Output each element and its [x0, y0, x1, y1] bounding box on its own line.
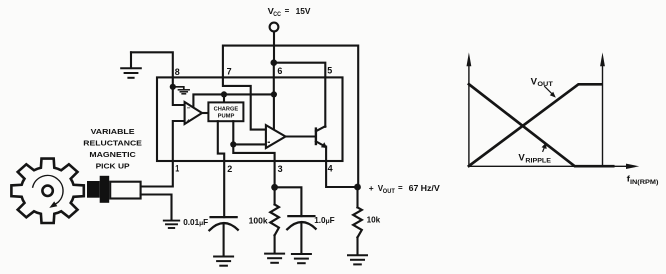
wire pickup lower to ground — [141, 195, 172, 220]
wire emitter pin 4 to output node — [326, 147, 357, 188]
svg-text:1.0μF: 1.0μF — [314, 216, 334, 225]
wire ground to pin 8 — [131, 52, 173, 87]
capacitor C1 0.01uF pin2 — [211, 216, 237, 218]
node pin6 rail junction — [271, 91, 277, 97]
wire pin 7 to op-amp 2 inverting input — [223, 77, 266, 129]
svg-text:5: 5 — [327, 65, 333, 76]
ground under 10k — [348, 254, 367, 256]
svg-text:=: = — [398, 183, 403, 192]
ground pickup — [164, 220, 179, 222]
gear hub — [42, 186, 52, 196]
svg-text:4: 4 — [328, 163, 334, 174]
svg-text:+: + — [187, 118, 191, 125]
pickup pole black — [87, 181, 100, 198]
label Vout — [531, 76, 554, 88]
wire pin 6 stub — [273, 63, 275, 95]
node charge pump output — [230, 141, 236, 147]
svg-text:CHARGE: CHARGE — [214, 107, 239, 113]
svg-text:V: V — [531, 76, 538, 86]
curve Vout — [469, 84, 602, 166]
op-amp 2 minus mark — [268, 142, 270, 143]
ground under 100k — [265, 253, 284, 255]
svg-text:67: 67 — [409, 183, 419, 193]
svg-text:3: 3 — [278, 164, 283, 175]
capacitor C2 1.0uF — [288, 215, 314, 217]
graph left axis — [468, 64, 470, 166]
wire charge pump to node — [232, 121, 234, 144]
wire stub rail to op-amp 2 — [273, 94, 275, 130]
wire top feedback rail pin7 to output — [223, 46, 358, 187]
op-amp U1C output amplifier — [266, 125, 286, 148]
resistor R2 10k — [356, 187, 358, 207]
ground under C1 — [214, 256, 233, 258]
svg-text:10k: 10k — [367, 216, 381, 225]
svg-text:MAGNETIC: MAGNETIC — [89, 150, 136, 159]
svg-text:2: 2 — [227, 164, 232, 175]
ground top-left — [130, 52, 132, 68]
pickup flange black — [100, 176, 110, 203]
label fin axis — [627, 174, 659, 186]
resistor R1 100k — [274, 187, 276, 204]
svg-text:7: 7 — [227, 67, 232, 78]
svg-text:OUT: OUT — [383, 189, 395, 195]
svg-text:V: V — [518, 153, 525, 163]
svg-text:0.01μF: 0.01μF — [183, 218, 208, 227]
wire stub rail to charge pump — [223, 94, 225, 102]
wire Vcc vertical to node — [273, 32, 275, 63]
svg-text:100k: 100k — [249, 216, 268, 225]
svg-text:Hz/V: Hz/V — [421, 183, 440, 193]
svg-text:+: + — [369, 183, 374, 193]
transistor Q1 — [315, 129, 317, 144]
pin labels — [175, 65, 333, 175]
IC U1 LM2917 outline — [157, 77, 343, 161]
svg-text:RELUCTANCE: RELUCTANCE — [83, 138, 142, 147]
wire pin3 node to 1uF cap — [275, 187, 302, 216]
ground under 1uF — [292, 253, 311, 255]
label Vout arrow — [545, 87, 553, 95]
gear rotation arrow — [33, 175, 63, 203]
wire node to pin 3 — [233, 144, 274, 187]
node output — [354, 184, 361, 191]
svg-text:VARIABLE: VARIABLE — [91, 127, 135, 136]
wire charge pump to pin 2 — [218, 121, 224, 217]
Vcc supply label — [268, 6, 311, 18]
internal Vcc rail — [193, 94, 274, 107]
svg-text:PICK UP: PICK UP — [96, 161, 130, 170]
pickup coil body — [110, 182, 140, 199]
svg-text:8: 8 — [175, 67, 181, 78]
wire pin8 node to comparator inverting input — [173, 87, 185, 105]
svg-text:PUMP: PUMP — [218, 114, 235, 120]
Vcc terminal — [270, 23, 279, 32]
svg-text:15V: 15V — [296, 6, 311, 16]
output label — [369, 183, 440, 195]
node Vcc junction — [271, 59, 278, 66]
curve Vripple — [469, 84, 613, 166]
op-amp U1A input comparator — [185, 102, 202, 124]
label Vripple arrow — [543, 147, 545, 152]
wire pin 1 to comparator non-inverting input — [141, 121, 185, 187]
svg-text:6: 6 — [277, 66, 282, 77]
svg-text:−: − — [187, 105, 191, 112]
wire op-amp 2 output to transistor base — [286, 135, 316, 137]
svg-text:RIPPLE: RIPPLE — [525, 159, 551, 165]
svg-text:IN(RPM): IN(RPM) — [630, 180, 658, 186]
node charge pump supply — [221, 91, 227, 97]
graph x axis — [469, 165, 627, 167]
charge pump block U1B — [208, 102, 243, 121]
node pin3 bottom — [271, 184, 278, 191]
wire comparator output to charge pump — [202, 112, 208, 114]
label Vripple — [518, 153, 551, 165]
pickup caption — [83, 127, 142, 170]
wire Vcc to pin 5 — [274, 63, 326, 78]
ground internal comparator — [173, 87, 184, 90]
wire node to op-amp 2 non-inverting input — [233, 143, 266, 145]
svg-text:=: = — [285, 7, 290, 16]
graph right axis — [602, 64, 604, 166]
wire pin5 collector — [324, 77, 326, 126]
svg-text:CC: CC — [273, 11, 281, 18]
svg-text:1: 1 — [175, 164, 179, 175]
node pin8 junction — [170, 84, 176, 90]
gear wheel — [11, 159, 83, 223]
